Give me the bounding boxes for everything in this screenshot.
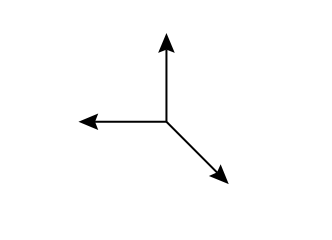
vector arrow down-right [166,122,228,184]
vector arrow left [78,113,166,130]
vector arrow up [158,33,175,122]
